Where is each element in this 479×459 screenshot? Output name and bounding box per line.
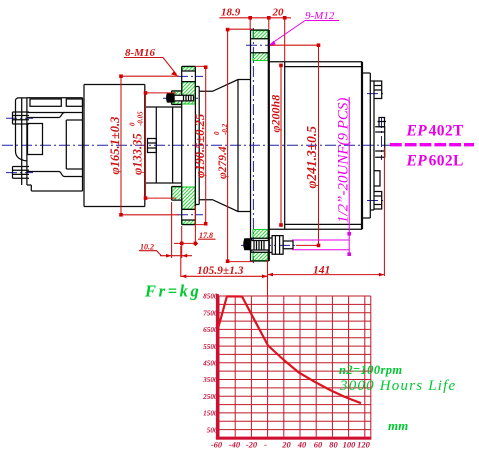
svg-text:φ200h8: φ200h8 — [269, 95, 283, 133]
flange top bolt hole centerline — [177, 75, 203, 77]
housing top inner rect left — [30, 99, 61, 106]
curve Fr — [219, 296, 361, 403]
M16 bolt centerline — [163, 97, 200, 99]
shaft spline rect — [148, 139, 157, 153]
M16 bolt head — [167, 93, 175, 102]
svg-text:500: 500 — [207, 426, 218, 434]
svg-text:60: 60 — [314, 440, 323, 450]
y axis thick — [216, 294, 219, 440]
9-M12 bottom hole edges — [251, 238, 269, 252]
dim 18.9 / 20 top line — [219, 18, 291, 61]
bottom stud tip — [283, 241, 293, 249]
ear hole centerline top — [6, 117, 33, 119]
bottom stud nut — [269, 236, 283, 255]
svg-text:φ279.4: φ279.4 — [217, 146, 229, 179]
M16 bolt shank mask — [174, 95, 193, 101]
svg-text:120: 120 — [357, 440, 371, 450]
y axis labels — [202, 293, 218, 435]
svg-text:105.9±1.3: 105.9±1.3 — [197, 265, 244, 277]
grid horizontals — [218, 296, 371, 430]
svg-text:3000 Hours Life: 3000 Hours Life — [339, 378, 456, 394]
housing inner vertical rect — [66, 120, 82, 169]
svg-text:n2=100rpm: n2=100rpm — [339, 363, 403, 377]
svg-text:EP402T: EP402T — [406, 123, 465, 140]
svg-text:5500: 5500 — [203, 343, 218, 351]
9-M12 flange right face (thick) — [268, 30, 270, 261]
right small block lower mid — [374, 171, 380, 186]
hatch flange 8-M16 bottom strip — [182, 220, 195, 224]
svg-text:-20: -20 — [246, 440, 258, 450]
right mid fitting — [375, 127, 385, 158]
svg-text:0: 0 — [129, 122, 137, 126]
right mid fitting centerline — [381, 117, 383, 160]
taper bottom — [199, 200, 250, 212]
x axis thick — [216, 437, 372, 440]
svg-text:-: - — [264, 440, 267, 450]
svg-text:1500: 1500 — [203, 410, 218, 418]
hatch 9-M12 plate bottom upper — [253, 230, 268, 239]
hatch flange 8-M16 top strip — [182, 67, 195, 71]
housing ear top — [13, 112, 30, 124]
svg-text:-0.2: -0.2 — [221, 123, 229, 135]
hatch 9-M12 plate bottom lower — [253, 252, 268, 260]
right bottom port centerline — [367, 200, 385, 202]
svg-text:mm: mm — [388, 418, 408, 433]
flange collar — [195, 87, 199, 205]
right bottom port block — [374, 192, 382, 210]
svg-text:18.9: 18.9 — [221, 7, 241, 19]
flange hub bottom — [172, 187, 182, 201]
svg-text:7500: 7500 — [203, 309, 218, 317]
bottom stud shank mask — [251, 240, 268, 250]
flange hub top — [172, 91, 182, 105]
cylinder 1 (phi165.1) — [84, 85, 145, 207]
svg-text:-40: -40 — [229, 440, 241, 450]
svg-text:6500: 6500 — [203, 326, 218, 334]
ear hole centerline bottom — [6, 172, 33, 174]
bottom stud washer — [250, 238, 252, 252]
drum cap ring 2 — [370, 81, 374, 210]
dim phi279.4 (9-M12 plate OD) line — [228, 29, 253, 261]
hatch 9-M12 plate top lower — [253, 53, 268, 61]
drum right face (thick) — [361, 62, 363, 230]
taper top — [199, 80, 250, 212]
flange bolt hole top edges — [182, 71, 196, 82]
right top port block — [374, 81, 382, 99]
svg-text:100: 100 — [343, 440, 357, 450]
drum cap ring 1 — [362, 73, 370, 218]
right mid fitting screw — [378, 118, 387, 127]
dim phi165.1 (8-M16 bolt circle) line — [121, 76, 179, 215]
housing top inner rect right — [66, 99, 82, 106]
svg-text:80: 80 — [329, 440, 338, 450]
svg-text:φ165.1±0.3: φ165.1±0.3 — [108, 117, 122, 175]
drum body — [269, 62, 362, 230]
svg-text:-60: -60 — [211, 440, 223, 450]
svg-text:-0.05: -0.05 — [137, 111, 145, 126]
svg-text:Fr=kg: Fr=kg — [144, 282, 201, 301]
dim phi200h8 line — [280, 65, 282, 226]
svg-text:φ241.3±0.5: φ241.3±0.5 — [304, 126, 319, 189]
svg-text:17.8: 17.8 — [199, 231, 213, 240]
flange bolt hole bottom edges — [182, 209, 196, 220]
9-M12 top hole edges — [251, 39, 269, 53]
housing ear bottom — [13, 167, 30, 179]
hatch flange 8-M16 mid block — [172, 82, 195, 104]
housing stepped line lower — [27, 172, 83, 177]
9-M12 flange vertical bolt circle centerline — [252, 28, 254, 263]
housing inner line upper — [27, 112, 83, 114]
svg-text:3500: 3500 — [202, 376, 218, 384]
main horizontal centerline — [2, 144, 390, 146]
right top port centerline — [367, 93, 385, 95]
svg-text:20: 20 — [281, 440, 291, 450]
housing outline — [16, 98, 83, 191]
housing inner window rect — [28, 124, 43, 155]
drum front plate vertical — [284, 62, 286, 230]
flange 8-M16 plate — [182, 66, 196, 224]
9-M12 flange plate — [251, 30, 269, 261]
bottom stud shank left — [251, 241, 268, 251]
svg-text:φ190.5±0.25: φ190.5±0.25 — [193, 114, 207, 178]
svg-text:0: 0 — [213, 131, 221, 135]
hatch flange 8-M16 bottom block — [172, 187, 195, 209]
svg-text:2500: 2500 — [202, 393, 218, 401]
dim phi241.3 line — [270, 45, 320, 245]
cylinder 2 (phi133.35) — [145, 107, 182, 183]
svg-text:8500: 8500 — [203, 293, 218, 301]
svg-text:40: 40 — [297, 440, 307, 450]
dim phi190.5 (flange OD) line — [195, 66, 207, 224]
hatch 9-M12 plate top upper — [253, 31, 268, 39]
bottom stud centerline — [241, 244, 296, 246]
svg-text:20: 20 — [272, 7, 285, 19]
svg-text:φ133.35: φ133.35 — [131, 133, 145, 175]
bottom stud head — [244, 239, 252, 250]
flange bottom bolt hole centerline — [177, 214, 203, 216]
housing stepped line upper — [27, 113, 65, 118]
grid verticals — [219, 296, 371, 437]
svg-text:EP602L: EP602L — [406, 153, 464, 170]
M16 bolt shank — [174, 95, 193, 101]
svg-text:10.2: 10.2 — [140, 243, 154, 252]
svg-text:4500: 4500 — [202, 360, 218, 368]
EP dashed centerline — [390, 143, 474, 146]
x axis labels — [211, 440, 371, 450]
dim phi133.35 line — [146, 93, 177, 198]
9-M12 top hole centerline — [246, 44, 274, 46]
